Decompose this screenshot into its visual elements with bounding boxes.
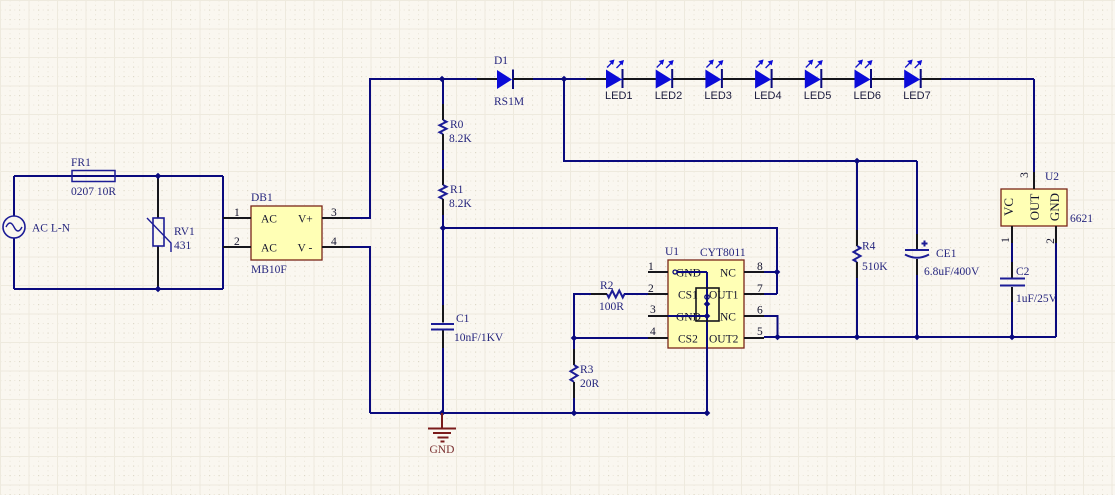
svg-text:1: 1: [1000, 237, 1012, 243]
svg-text:LED5: LED5: [804, 90, 832, 102]
svg-text:GND: GND: [676, 268, 701, 280]
wire bottom-left horizontal: [14, 288, 223, 290]
pin U1-6: [744, 315, 764, 317]
svg-text:LED6: LED6: [854, 90, 882, 102]
junction R3 bottom: [571, 410, 578, 417]
LED1: [605, 60, 656, 103]
svg-text:6.8uF/400V: 6.8uF/400V: [924, 266, 980, 278]
diode D1: [494, 55, 524, 108]
wire U1 pin8/pin7 to mid-right vertical: [764, 271, 777, 273]
svg-text:C1: C1: [456, 313, 470, 325]
junction R4 bottom: [854, 334, 861, 341]
svg-text:510K: 510K: [862, 261, 888, 273]
svg-text:6621: 6621: [1070, 213, 1093, 225]
wire D1 cathode to LED branch: [533, 78, 586, 80]
svg-text:OUT2: OUT2: [709, 334, 739, 346]
ground GND: [428, 413, 456, 456]
svg-text:10nF/1KV: 10nF/1KV: [454, 332, 504, 344]
svg-text:CYT8011: CYT8011: [700, 247, 746, 259]
svg-text:8.2K: 8.2K: [449, 198, 472, 210]
pin U1-8: [744, 271, 764, 273]
wire DB1-3 to riser: [350, 79, 477, 218]
svg-text:LED4: LED4: [754, 90, 782, 102]
svg-text:R4: R4: [862, 241, 876, 253]
pin U1-4: [648, 337, 668, 339]
svg-text:V -: V -: [298, 243, 313, 255]
wire U1 internal vertical to bottom bus: [706, 272, 708, 413]
resistor R3: [571, 338, 600, 413]
svg-text:5: 5: [757, 326, 763, 338]
junction R4 top: [854, 158, 861, 165]
svg-text:100R: 100R: [599, 301, 624, 313]
pin D1 cathode: [513, 78, 533, 80]
junction LED branch node: [561, 76, 568, 83]
LED7: [903, 60, 1034, 103]
rectangle overlay inside U1: [696, 288, 719, 321]
junction RV1 top: [155, 173, 162, 180]
wire left vertical lower: [13, 238, 15, 289]
wire output bus (pin5 row): [764, 336, 1056, 338]
wire right vertical of input loop: [222, 176, 224, 289]
junction D1 anode node: [439, 76, 446, 83]
svg-text:431: 431: [174, 240, 192, 252]
wire left vertical upper: [13, 176, 15, 216]
svg-text:AC: AC: [261, 214, 277, 226]
svg-text:6: 6: [757, 305, 763, 317]
LED5: [804, 60, 855, 103]
svg-text:LED2: LED2: [655, 90, 683, 102]
svg-text:R0: R0: [450, 119, 464, 131]
junction C2 bottom: [1009, 334, 1016, 341]
svg-text:R2: R2: [600, 280, 614, 292]
pin U1-7: [744, 293, 764, 295]
resistor R1: [440, 184, 473, 323]
svg-text:0207 10R: 0207 10R: [71, 186, 116, 198]
pin U2-1: [1011, 226, 1013, 243]
svg-text:R3: R3: [580, 364, 594, 376]
svg-text:GND: GND: [430, 444, 455, 456]
LED3: [704, 60, 755, 103]
svg-text:4: 4: [650, 326, 656, 338]
svg-text:DB1: DB1: [251, 192, 273, 204]
svg-text:1uF/25V: 1uF/25V: [1016, 293, 1058, 305]
svg-text:AC L-N: AC L-N: [32, 223, 71, 235]
svg-text:AC: AC: [261, 243, 277, 255]
wire bottom bus: [370, 412, 709, 414]
svg-text:MB10F: MB10F: [251, 264, 287, 276]
circle marker on internal wire: [705, 295, 709, 299]
IC U2 6621: [1000, 171, 1093, 244]
pin LED1 anode: [586, 78, 606, 80]
pin DB1-4: [322, 246, 350, 248]
svg-text:OUT1: OUT1: [709, 290, 739, 302]
pin DB1-2: [223, 246, 251, 248]
wire branch down to mid bus: [564, 79, 917, 161]
LED6: [854, 60, 905, 103]
pin DB1-3: [322, 217, 350, 219]
junction CE1 bottom: [914, 334, 921, 341]
svg-text:3: 3: [650, 304, 656, 316]
capacitor C1: [431, 313, 504, 413]
varistor RV1: [147, 176, 195, 289]
wire U1 pin1 internal: [673, 270, 677, 274]
junction R2/R3/pin4 node: [571, 335, 578, 342]
IC U1 CYT8011: [648, 246, 763, 348]
pin U1-3: [648, 315, 668, 317]
capacitor CE1: [905, 161, 980, 337]
LED4: [754, 60, 805, 103]
wire U1 pin6 down to output bus: [764, 316, 778, 337]
svg-text:C2: C2: [1016, 266, 1030, 278]
wire U2 pin2 down to output bus: [1055, 243, 1057, 337]
bridge rectifier DB1: [234, 192, 337, 276]
svg-text:LED1: LED1: [605, 90, 633, 102]
wire top-left horizontal: [14, 175, 223, 177]
svg-text:NC: NC: [720, 312, 736, 324]
svg-text:8.2K: 8.2K: [449, 133, 472, 145]
fuse FR1: [71, 157, 116, 198]
junction internal 1: [704, 301, 711, 308]
svg-text:D1: D1: [494, 55, 508, 67]
resistor R0: [440, 79, 473, 185]
svg-text:OUT: OUT: [1027, 194, 1042, 221]
svg-text:CS1: CS1: [678, 290, 698, 302]
wire DB1-4 to bottom bus: [350, 247, 370, 413]
resistor R2: [574, 280, 648, 338]
svg-text:CS2: CS2: [678, 334, 698, 346]
svg-text:NC: NC: [720, 268, 736, 280]
svg-text:GND: GND: [1047, 193, 1062, 221]
wire U1 pin4 to R2/R3 node: [574, 337, 648, 339]
AC source V1: [3, 216, 71, 238]
pin U2-2: [1055, 226, 1057, 243]
junction pin8 node: [774, 269, 781, 276]
svg-text:20R: 20R: [580, 378, 600, 390]
svg-text:U2: U2: [1045, 171, 1059, 183]
junction pin6 node: [774, 334, 781, 341]
svg-text:U1: U1: [665, 246, 679, 258]
pin D1 anode: [477, 78, 497, 80]
pin U1-1: [648, 271, 668, 273]
junction internal vertical at bottom bus: [704, 410, 711, 417]
pin U1-2: [648, 293, 668, 295]
svg-text:RV1: RV1: [174, 226, 195, 238]
LED2: [655, 60, 706, 103]
svg-text:CE1: CE1: [936, 248, 957, 260]
svg-text:RS1M: RS1M: [494, 96, 524, 108]
pin U2-3: [1033, 172, 1035, 189]
pin U1-5: [744, 337, 764, 339]
junction internal 2 (pin3 node): [704, 313, 711, 320]
wire LED7 to U2 pin3: [1033, 79, 1035, 189]
capacitor C2: [1000, 266, 1058, 337]
junction R1 bottom node: [440, 225, 447, 232]
resistor R4: [854, 161, 889, 337]
svg-text:3: 3: [1019, 172, 1031, 178]
svg-text:LED7: LED7: [903, 90, 931, 102]
svg-text:V+: V+: [298, 214, 313, 226]
wire mid horizontal to U1 right: [443, 228, 777, 294]
svg-text:R1: R1: [450, 184, 464, 196]
wire U1 pin3 internal: [668, 315, 707, 317]
wire U2 pin1 to C2: [1011, 243, 1013, 262]
svg-text:VC: VC: [1001, 198, 1016, 216]
junction C1 bottom / GND node: [439, 410, 446, 417]
junction RV1 bottom: [155, 286, 162, 293]
pin DB1-1: [223, 217, 251, 219]
svg-text:FR1: FR1: [71, 157, 91, 169]
svg-text:LED3: LED3: [704, 90, 732, 102]
